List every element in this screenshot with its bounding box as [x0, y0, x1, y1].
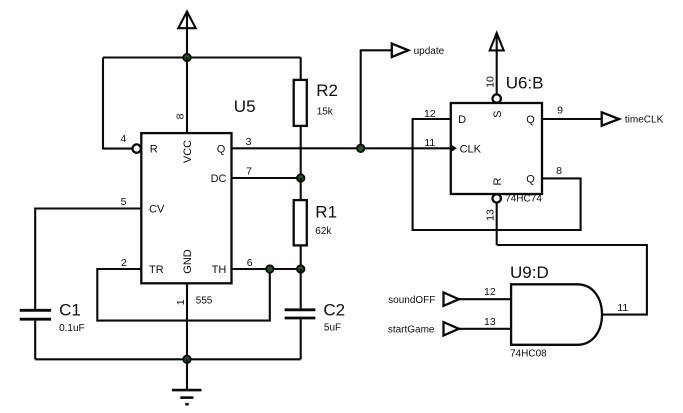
wire update branch: [361, 50, 392, 148]
svg-text:D: D: [458, 114, 466, 126]
svg-text:S: S: [492, 111, 504, 118]
svg-text:8: 8: [174, 113, 186, 119]
svg-text:13: 13: [484, 209, 496, 221]
svg-text:10: 10: [484, 76, 496, 88]
IC U5 555 timer body: [141, 133, 231, 283]
wire pin 6 TH: [232, 268, 301, 270]
wire pin 1 GND: [186, 283, 188, 359]
svg-text:C2: C2: [323, 301, 345, 320]
terminal arrow startGame input: [444, 322, 459, 335]
svg-text:8: 8: [556, 165, 562, 177]
svg-text:R1: R1: [315, 203, 337, 222]
wire pin 7 DC: [232, 177, 301, 179]
junction VCC/pin8 node: [183, 54, 190, 61]
svg-text:startGame: startGame: [388, 325, 435, 336]
svg-text:Q: Q: [526, 174, 535, 186]
svg-text:R: R: [492, 177, 504, 185]
capacitor C2: [285, 269, 316, 359]
power flag (VCC arrow above U5): [178, 12, 195, 58]
svg-text:7: 7: [246, 166, 252, 178]
wire VCC rail: [103, 56, 301, 58]
svg-text:CV: CV: [149, 204, 165, 216]
svg-text:74HC08: 74HC08: [510, 348, 547, 359]
wire U6 pin 13 R: [496, 203, 498, 245]
svg-text:U6:B: U6:B: [506, 74, 544, 93]
terminal arrow update: [392, 44, 409, 57]
svg-text:5: 5: [121, 196, 127, 208]
capacitor C1: [20, 310, 51, 359]
svg-text:U5: U5: [234, 97, 256, 116]
svg-text:6: 6: [247, 257, 253, 269]
svg-text:TH: TH: [212, 264, 227, 276]
terminal arrow timeCLK: [602, 112, 619, 125]
wire gate output to U6 R: [497, 245, 647, 315]
junction ground node: [183, 356, 190, 363]
svg-text:3: 3: [246, 136, 252, 148]
svg-text:4: 4: [120, 133, 126, 145]
svg-text:74HC74: 74HC74: [505, 193, 542, 204]
wire gate input 12: [459, 298, 511, 300]
svg-text:soundOFF: soundOFF: [388, 295, 435, 306]
svg-text:11: 11: [424, 137, 435, 149]
svg-text:timeCLK: timeCLK: [625, 114, 664, 125]
wire pin 3 Q to U6 CLK: [232, 147, 451, 149]
wire gate input 13: [459, 328, 511, 330]
svg-text:VCC: VCC: [182, 140, 194, 163]
junction Q/update node: [357, 145, 364, 152]
wire U6 Q output: [542, 118, 602, 120]
svg-text:R: R: [150, 143, 158, 155]
ground symbol: [172, 359, 202, 404]
svg-text:update: update: [414, 46, 445, 57]
wire DC node to R1 top: [300, 178, 302, 200]
resistor R2: [294, 80, 307, 126]
svg-text:2: 2: [121, 257, 127, 269]
svg-text:CLK: CLK: [460, 144, 482, 156]
svg-text:TR: TR: [149, 264, 164, 276]
svg-text:C1: C1: [59, 300, 81, 319]
svg-text:U9:D: U9:D: [510, 263, 549, 282]
wire ground rail: [35, 358, 301, 360]
svg-text:62k: 62k: [315, 226, 332, 237]
R bubble: [493, 194, 501, 202]
svg-text:Q: Q: [526, 114, 535, 126]
svg-text:0.1uF: 0.1uF: [59, 323, 85, 334]
svg-text:GND: GND: [182, 249, 194, 274]
AND gate U9:D body: [511, 284, 602, 345]
resistor R1: [294, 200, 307, 245]
wire R2 bottom to DC node: [300, 126, 302, 178]
svg-text:DC: DC: [211, 173, 227, 185]
svg-text:15k: 15k: [317, 106, 334, 117]
svg-text:1: 1: [175, 299, 187, 305]
power flag (VCC arrow above U6): [490, 33, 504, 94]
clock input triangle: [451, 144, 457, 152]
S bubble: [493, 94, 501, 102]
svg-text:12: 12: [484, 286, 496, 298]
wire pin 2 TR loop to TH node: [97, 269, 269, 321]
wire Qbar to D feedback: [413, 119, 581, 230]
svg-text:R2: R2: [316, 81, 338, 100]
terminal arrow soundOFF input: [444, 293, 459, 306]
wire VCC to 555 pin 4 (reset): [103, 58, 133, 149]
svg-text:5uF: 5uF: [324, 322, 341, 333]
svg-text:555: 555: [196, 295, 213, 306]
junction TH/TR node: [266, 265, 273, 272]
wire R1 bottom to TH node: [300, 245, 302, 269]
junction TH/C2 node: [297, 265, 304, 272]
wire VCC rail to R2 top: [300, 58, 302, 81]
wire pin 8 VCC: [186, 58, 188, 134]
pin 4 bubble: [133, 144, 141, 152]
svg-text:11: 11: [617, 302, 628, 314]
svg-text:13: 13: [484, 316, 496, 328]
junction DC node: [297, 174, 304, 181]
wire pin 5 CV to C1: [35, 209, 141, 310]
IC U6:B 74HC74 body: [451, 103, 542, 194]
svg-text:Q: Q: [217, 143, 226, 155]
svg-text:9: 9: [557, 105, 563, 117]
